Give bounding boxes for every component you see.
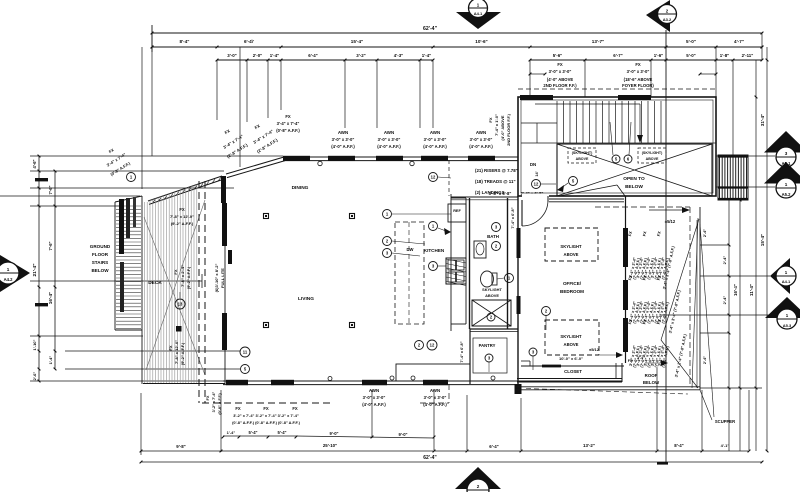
- circle note left wall b: [241, 365, 250, 374]
- circle note pair b: [427, 340, 437, 350]
- svg-text:LIVING: LIVING: [298, 296, 314, 302]
- svg-text:A5.2: A5.2: [782, 192, 792, 197]
- angled glazed walls top-left: [148, 157, 285, 204]
- svg-text:2'-6": 2'-6": [32, 372, 37, 381]
- svg-text:3'-0": 3'-0": [227, 53, 236, 58]
- circle note k3b: [429, 262, 438, 271]
- window label FX horizontal: [276, 114, 300, 133]
- circle note bath 2: [492, 242, 501, 251]
- svg-text:ROOF: ROOF: [645, 373, 658, 378]
- svg-text:FX: FX: [488, 117, 493, 122]
- svg-text:3'-2" x 7'-4": 3'-2" x 7'-4": [212, 392, 216, 413]
- svg-text:6'-4": 6'-4": [308, 53, 317, 58]
- svg-text:62'-4": 62'-4": [423, 26, 438, 32]
- svg-text:7'-8" x 2'-4": 7'-8" x 2'-4": [180, 265, 185, 287]
- kitchen island dashed: [395, 222, 424, 324]
- svg-text:1'-10": 1'-10": [32, 339, 37, 350]
- roof below outline: [516, 185, 700, 394]
- svg-text:8'-4": 8'-4": [674, 443, 683, 448]
- svg-text:DECK: DECK: [148, 280, 162, 286]
- svg-text:14': 14': [535, 171, 539, 176]
- svg-text:FX: FX: [263, 406, 269, 411]
- svg-text:OFFICE/: OFFICE/: [563, 281, 582, 286]
- svg-text:5'-0": 5'-0": [686, 39, 696, 44]
- rotated FX label bottom-left corner: [205, 392, 222, 415]
- office skylight box bottom: [545, 320, 599, 355]
- svg-text:SCUPPER: SCUPPER: [715, 419, 735, 424]
- elevation marker 1/A5.3 right: [765, 297, 800, 329]
- svg-text:2ND FLOOR F.F.): 2ND FLOOR F.F.): [543, 83, 577, 88]
- svg-text:(0'-8" A.F.F.) (0'-8" A.F.F.): (0'-8" A.F.F.) (0'-8" A.F.F.) (0'-8" A.F…: [232, 420, 300, 425]
- svg-text:25'-10": 25'-10": [323, 443, 337, 448]
- svg-text:10'-6": 10'-6": [475, 39, 487, 44]
- deck rotated window label bottom: [168, 340, 185, 365]
- AWN window label 4: [469, 130, 493, 149]
- svg-text:±5/12: ±5/12: [665, 219, 676, 224]
- svg-text:(SKYLIGHT): (SKYLIGHT): [572, 151, 593, 155]
- svg-text:3'-4" x 6'-8": 3'-4" x 6'-8": [489, 191, 512, 196]
- left dimension lines: [32, 155, 56, 383]
- AWN window label 2: [377, 130, 401, 149]
- svg-text:12: 12: [430, 343, 435, 348]
- office north wall: [549, 199, 624, 202]
- svg-text:SKYLIGHT: SKYLIGHT: [482, 287, 502, 292]
- svg-text:(4'-0" A.F.F.): (4'-0" A.F.F.): [469, 144, 493, 149]
- svg-text:FX: FX: [635, 62, 641, 67]
- svg-text:FX: FX: [173, 269, 178, 274]
- wing south wall: [515, 363, 623, 394]
- svg-text:ABOVE: ABOVE: [576, 157, 589, 161]
- svg-text:15'-4": 15'-4": [351, 39, 363, 44]
- column 3: [264, 323, 269, 328]
- svg-text:FX: FX: [235, 406, 241, 411]
- svg-text:2ND FLOOR F.F.): 2ND FLOOR F.F.): [506, 113, 511, 145]
- circle note k1b: [429, 222, 438, 231]
- svg-text:5'-4": 5'-4": [277, 430, 286, 435]
- column 1: [264, 214, 269, 219]
- svg-text:(4'-0" A.F.F.): (4'-0" A.F.F.): [377, 144, 401, 149]
- right extension lines: [660, 156, 775, 388]
- svg-text:1'-4": 1'-4": [422, 53, 431, 58]
- svg-text:(SKYLIGHT): (SKYLIGHT): [642, 151, 663, 155]
- svg-text:11'-4": 11'-4": [749, 284, 754, 296]
- deck rotated window label mid: [173, 265, 191, 289]
- svg-text:FX: FX: [285, 114, 291, 119]
- svg-text:7'-4" x 6'-8": 7'-4" x 6'-8": [459, 341, 464, 362]
- left extension lines: [0, 156, 283, 381]
- svg-text:15'-4": 15'-4": [760, 234, 765, 246]
- svg-text:AWN: AWN: [338, 130, 348, 135]
- circle note bath skylight: [487, 313, 495, 321]
- dim arrow right mid: [645, 362, 664, 364]
- svg-text:(4'-0" A.F.F.): (4'-0" A.F.F.): [362, 402, 386, 407]
- stair treads: [521, 101, 716, 143]
- svg-text:AWN: AWN: [369, 388, 379, 393]
- svg-text:16'-4": 16'-4": [48, 292, 53, 304]
- rotated window labels right column: [627, 230, 688, 377]
- svg-text:A3.2: A3.2: [663, 17, 672, 22]
- svg-text:3'-0" x 3'-0": 3'-0" x 3'-0": [424, 137, 447, 142]
- ground floor stairs text: [90, 244, 111, 273]
- svg-text:3'-0" x 3'-0": 3'-0" x 3'-0": [424, 395, 447, 400]
- svg-text:2'-4": 2'-4": [722, 296, 727, 305]
- svg-text:4'-1": 4'-1": [721, 443, 730, 448]
- top dimension lines: [151, 25, 764, 61]
- svg-text:(9'-2" A.F.F.): (9'-2" A.F.F.): [180, 342, 185, 365]
- open to below area with X: [557, 144, 712, 196]
- svg-text:(4'-0" ABOVE: (4'-0" ABOVE: [500, 115, 505, 140]
- svg-text:1'-4": 1'-4": [227, 430, 236, 435]
- svg-text:11: 11: [243, 350, 248, 355]
- svg-text:3'-0" x 3'-0": 3'-0" x 3'-0": [470, 137, 493, 142]
- circle note 5 foyer: [569, 177, 578, 186]
- svg-text:7'-4" x 6'-8": 7'-4" x 6'-8": [510, 207, 515, 228]
- svg-text:1: 1: [785, 182, 788, 187]
- deck circle note 13: [175, 299, 185, 309]
- svg-text:9'-0": 9'-0": [398, 432, 407, 437]
- section marker 1/A4.1 top: [456, 0, 501, 29]
- rotated window labels top-left: [222, 123, 279, 159]
- svg-text:ABOVE: ABOVE: [564, 342, 579, 347]
- svg-text:8'-4": 8'-4": [180, 39, 190, 44]
- AWN label bottom 2: [423, 388, 447, 407]
- bath skylight X box: [472, 300, 511, 326]
- bath sink: [474, 241, 486, 258]
- circle note k3: [383, 249, 392, 258]
- svg-text:PANTRY: PANTRY: [479, 343, 496, 348]
- svg-text:5'-6": 5'-6": [553, 53, 562, 58]
- svg-text:7'-4" x 1'-0": 7'-4" x 1'-0": [494, 114, 499, 136]
- toilet: [481, 271, 494, 287]
- svg-text:(9'-2" A.F.F.): (9'-2" A.F.F.): [186, 266, 191, 289]
- svg-text:2'-4": 2'-4": [722, 256, 727, 265]
- svg-text:6'-4": 6'-4": [489, 444, 498, 449]
- circle note k12: [429, 173, 438, 182]
- column 2: [350, 214, 355, 219]
- office door opening gap: [522, 194, 549, 203]
- bottom dimension lines: [140, 368, 764, 463]
- svg-text:REF: REF: [453, 209, 461, 213]
- deck small square mark: [176, 326, 182, 332]
- svg-text:1'-6": 1'-6": [654, 53, 663, 58]
- rotated label left of angled wall: [106, 147, 132, 177]
- svg-text:4'-3": 4'-3": [394, 53, 403, 58]
- circle note pair a: [415, 341, 424, 350]
- svg-text:6'-4\': 6'-4\': [244, 39, 254, 44]
- svg-text:CLOSET: CLOSET: [564, 369, 582, 374]
- svg-text:(4'-0" ABOVE: (4'-0" ABOVE: [547, 77, 574, 82]
- svg-text:ABOVE: ABOVE: [646, 157, 659, 161]
- svg-text:4'-7": 4'-7": [734, 39, 744, 44]
- svg-text:DINING: DINING: [292, 185, 309, 191]
- window label above foyer left: [543, 62, 577, 88]
- svg-text:21'-4": 21'-4": [32, 263, 38, 276]
- svg-text:FX: FX: [168, 345, 173, 350]
- closet shelf line: [521, 365, 624, 367]
- svg-text:7'-8" x 12'-0": 7'-8" x 12'-0": [174, 340, 179, 364]
- south wall with windows: [223, 376, 622, 385]
- bath walls: [451, 197, 518, 332]
- svg-text:BELOW: BELOW: [625, 184, 643, 190]
- svg-text:(4'-0" A.F.F.): (4'-0" A.F.F.): [423, 402, 447, 407]
- svg-text:1: 1: [7, 267, 10, 272]
- svg-text:16'-4": 16'-4": [733, 284, 738, 296]
- svg-text:7'-6": 7'-6": [48, 185, 53, 194]
- svg-text:12: 12: [431, 175, 436, 180]
- svg-text:SKYLIGHT: SKYLIGHT: [560, 244, 582, 249]
- svg-text:6'-7": 6'-7": [613, 53, 622, 58]
- svg-text:(6)3'-10" x 8'-2": (6)3'-10" x 8'-2": [214, 263, 219, 292]
- svg-text:2'-11": 2'-11": [742, 53, 754, 58]
- svg-text:1'-8": 1'-8": [720, 53, 729, 58]
- window label above foyer right: [622, 62, 654, 88]
- dashed line above foyer (windows above): [518, 88, 716, 90]
- svg-text:(18) TREADS @ 11": (18) TREADS @ 11": [475, 179, 516, 184]
- svg-text:3'-0" x 3'-0": 3'-0" x 3'-0": [549, 69, 572, 74]
- svg-text:BELOW: BELOW: [643, 380, 660, 385]
- range crosshatched: [446, 258, 466, 286]
- circle note near angled wall: [127, 173, 136, 182]
- office east window wall: [623, 196, 628, 363]
- svg-text:3: 3: [785, 151, 788, 156]
- skylight dashed box stair right: [638, 148, 666, 163]
- svg-text:7'-6": 7'-6": [48, 241, 53, 250]
- svg-text:BATH: BATH: [487, 234, 499, 239]
- svg-text:FX: FX: [292, 406, 298, 411]
- svg-text:3'-2" x 7'-4" 3'-2" x 7'-4": 3'-2" x 7'-4" 3'-2" x 7'-4" 3'-2" x 7'-4…: [233, 413, 299, 418]
- svg-text:A4.1: A4.1: [474, 11, 483, 16]
- section marker 1/A4.2 left: [0, 255, 30, 292]
- dining top wall with windows: [283, 156, 518, 166]
- column 4: [350, 323, 355, 328]
- circle note 5 stairs: [612, 155, 620, 163]
- svg-text:12: 12: [534, 182, 539, 187]
- svg-text:13'-2": 13'-2": [583, 443, 595, 448]
- svg-text:1'-4": 1'-4": [48, 356, 53, 365]
- svg-text:FX: FX: [557, 62, 563, 67]
- roof overhang dashed lines: [199, 160, 449, 403]
- svg-text:STAIRS: STAIRS: [92, 260, 109, 265]
- FX labels below south wall: [232, 406, 300, 425]
- svg-text:(4'-0" A.F.F.): (4'-0" A.F.F.): [423, 144, 447, 149]
- circle note k2: [383, 237, 392, 246]
- svg-text:OPEN TO: OPEN TO: [623, 176, 645, 182]
- svg-text:62'-4": 62'-4": [423, 455, 437, 461]
- closet circle note: [529, 348, 537, 356]
- foyer stair block walls: [518, 97, 716, 196]
- circle note office: [542, 307, 551, 316]
- circle note 12 foyer: [532, 180, 541, 189]
- foyer top wall window 1: [520, 95, 553, 100]
- svg-text:ABOVE: ABOVE: [564, 252, 579, 257]
- svg-text:(0'-8" A.F.F.): (0'-8" A.F.F.): [276, 128, 300, 133]
- svg-text:AWN: AWN: [430, 388, 440, 393]
- svg-text:13'-7": 13'-7": [592, 39, 604, 44]
- svg-text:(18'-6" ABOVE: (18'-6" ABOVE: [624, 77, 653, 82]
- full lite rotated label: [214, 263, 225, 292]
- svg-text:FOYER FLOOR): FOYER FLOOR): [622, 83, 654, 88]
- svg-text:5'-4": 5'-4": [248, 430, 257, 435]
- office door arc: [522, 200, 548, 226]
- svg-text:4'-6": 4'-6": [32, 159, 37, 168]
- svg-text:SKYLIGHT: SKYLIGHT: [560, 334, 582, 339]
- svg-text:±5/12: ±5/12: [589, 347, 600, 352]
- svg-text:2: 2: [477, 484, 480, 489]
- ground floor stairs strip: [115, 196, 142, 330]
- circle note 6 stairs: [624, 155, 632, 163]
- svg-text:KITCHEN: KITCHEN: [424, 248, 445, 253]
- svg-text:7'-8" x 12'-0": 7'-8" x 12'-0": [170, 214, 194, 219]
- svg-text:2'-4": 2'-4": [703, 229, 707, 237]
- svg-text:31'-4": 31'-4": [760, 114, 765, 126]
- AWN window label 1: [331, 130, 355, 149]
- svg-text:FLOOR: FLOOR: [92, 252, 109, 257]
- balcony grate: [718, 155, 748, 200]
- svg-text:A4.2: A4.2: [4, 277, 14, 282]
- foyer top wall window 2: [618, 95, 651, 100]
- circle note pantry: [485, 354, 493, 362]
- office door size rotated label: [510, 207, 515, 228]
- svg-text:AWN: AWN: [476, 130, 486, 135]
- refrigerator: [448, 204, 466, 222]
- svg-text:10'-0" x 6'-0": 10'-0" x 6'-0": [559, 356, 583, 361]
- window seat rectangle: [396, 364, 470, 381]
- section marker 2/A4.2 bottom: [455, 467, 501, 492]
- svg-text:3'-0" x 3'-0": 3'-0" x 3'-0": [627, 69, 650, 74]
- skylight dashed box stair left: [568, 148, 596, 163]
- svg-text:2'-0": 2'-0": [253, 53, 262, 58]
- circle note bath 3: [492, 223, 501, 232]
- svg-text:9'-8": 9'-8": [176, 444, 185, 449]
- right dimension lines: [722, 47, 768, 452]
- circle note bath 1: [505, 274, 514, 283]
- svg-text:FX: FX: [179, 207, 185, 212]
- svg-text:(0'-8" A.F.F.): (0'-8" A.F.F.): [218, 393, 222, 415]
- svg-text:GROUND: GROUND: [90, 244, 111, 249]
- svg-text:13: 13: [178, 302, 183, 307]
- svg-text:A4.1: A4.1: [782, 279, 791, 284]
- office west wall: [517, 196, 521, 384]
- svg-text:FX: FX: [205, 395, 210, 400]
- extension lines from top dimensions: [142, 33, 762, 189]
- rotated window label near foyer: [488, 113, 511, 145]
- deck window label top: [170, 207, 194, 226]
- circle note k1: [383, 210, 392, 219]
- section marker 2/A3.2 top with cut line: [646, 0, 677, 32]
- svg-text:5'-0": 5'-0": [686, 53, 695, 58]
- elevation marker 1/A5.2 right: [764, 162, 800, 198]
- deck with plank hatching: [142, 185, 225, 385]
- svg-text:DW: DW: [407, 247, 414, 252]
- elevation marker 3/A5.1 right: [764, 131, 800, 167]
- pantry door size label: [459, 341, 464, 362]
- section marker 1/A4.1 right: [770, 258, 796, 294]
- svg-text:FULL LITE: FULL LITE: [220, 268, 225, 288]
- svg-text:3'-0" x 3'-0": 3'-0" x 3'-0": [378, 137, 401, 142]
- svg-text:AWN: AWN: [384, 130, 394, 135]
- svg-text:3'-4" x 7'-4": 3'-4" x 7'-4": [277, 121, 300, 126]
- kitchen counter walls: [451, 194, 466, 331]
- AWN window label 3: [423, 130, 447, 149]
- svg-text:3'-0" x 3'-0": 3'-0" x 3'-0": [332, 137, 355, 142]
- svg-text:(21) RISERS @ 7.78": (21) RISERS @ 7.78": [475, 168, 518, 173]
- svg-text:A5.3: A5.3: [783, 323, 792, 328]
- svg-text:9'-0": 9'-0": [329, 431, 338, 436]
- section cut line vertical: [665, 30, 667, 463]
- svg-text:ABOVE: ABOVE: [485, 293, 499, 298]
- office skylight box top: [545, 228, 598, 261]
- svg-text:DN: DN: [530, 162, 536, 167]
- svg-text:BELOW: BELOW: [91, 268, 109, 273]
- svg-text:(9'-2" A.F.F.): (9'-2" A.F.F.): [171, 221, 194, 226]
- svg-text:2'-4": 2'-4": [703, 356, 707, 364]
- living west wall with windows: [222, 176, 232, 384]
- AWN label bottom 1: [362, 388, 386, 407]
- pantry walls: [470, 329, 507, 384]
- svg-text:(4'-0" A.F.F.): (4'-0" A.F.F.): [331, 144, 355, 149]
- svg-text:3'-2": 3'-2": [356, 53, 365, 58]
- svg-text:1'-4": 1'-4": [270, 53, 279, 58]
- circle note left wall a: [240, 347, 250, 357]
- svg-text:3'-0" x 3'-0": 3'-0" x 3'-0": [363, 395, 386, 400]
- stair note text: [475, 168, 518, 195]
- svg-text:BEDROOM: BEDROOM: [560, 289, 584, 294]
- svg-text:AWN: AWN: [430, 130, 440, 135]
